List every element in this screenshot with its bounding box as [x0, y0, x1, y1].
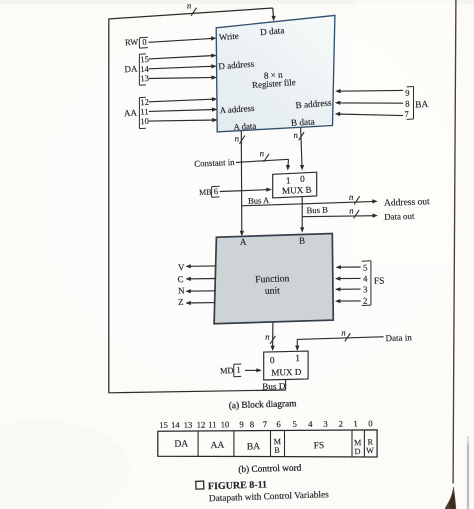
- wire status output N: [185, 289, 215, 293]
- svg-text:9: 9: [405, 88, 410, 98]
- svg-text:14: 14: [171, 420, 181, 430]
- function unit port label A: [240, 237, 247, 247]
- field label AA: [210, 440, 224, 451]
- wire FS bit3 to function unit: [335, 287, 361, 291]
- bracket DA bits: [139, 54, 146, 85]
- svg-text:9: 9: [239, 419, 244, 429]
- label N: [178, 285, 185, 295]
- svg-text:B data: B data: [291, 116, 315, 127]
- field label RW (stacked): [366, 438, 374, 456]
- svg-text:0: 0: [270, 356, 275, 366]
- bus width slash n on Bus B: [349, 205, 359, 218]
- control word bit number 8: [250, 419, 255, 429]
- control word bit number 0: [368, 418, 373, 428]
- svg-text:0: 0: [142, 37, 147, 47]
- control word bit number 12: [197, 420, 206, 430]
- wire Bus A to Address out: [242, 199, 378, 206]
- control word bit number 9: [239, 419, 244, 429]
- bit number 6 (MB): [213, 186, 219, 196]
- label Constant in: [194, 157, 235, 169]
- register file label B address: [295, 97, 332, 110]
- figure caption Datapath with Control Variables: [209, 490, 330, 504]
- wire Function unit output to MUX D input 0: [271, 322, 275, 351]
- MUX B name label: [282, 185, 312, 196]
- label Data in: [385, 332, 412, 343]
- svg-text:C: C: [177, 274, 183, 284]
- svg-text:B: B: [299, 235, 305, 245]
- label MB: [199, 188, 212, 198]
- label MD: [220, 366, 234, 375]
- svg-text:11: 11: [208, 419, 217, 429]
- svg-text:0: 0: [300, 175, 305, 185]
- bit number 5: [363, 262, 368, 272]
- wire status output C: [185, 277, 215, 281]
- svg-text:13: 13: [183, 420, 192, 430]
- control word bit number 5: [292, 419, 297, 429]
- bracket BA bits: [407, 87, 414, 120]
- field label MD (stacked): [354, 438, 362, 456]
- svg-text:(b) Control word: (b) Control word: [238, 463, 302, 476]
- bracket around RW bit 0: [139, 37, 148, 48]
- wire feedback Bus D to D data (left vertical + top horizontal): [108, 8, 275, 393]
- bit number 1 (MD): [236, 365, 241, 375]
- register file label B data: [291, 116, 315, 127]
- field divider MD|RW: [363, 430, 365, 457]
- svg-text:MUX B: MUX B: [282, 185, 312, 196]
- field divider AA|BA: [233, 431, 235, 457]
- bit number 15: [140, 54, 149, 64]
- bus width slash n on function unit output: [265, 332, 275, 344]
- wire FS bit5 to function unit: [336, 265, 361, 269]
- bit number 2: [363, 296, 368, 306]
- bracket FS bits: [362, 261, 371, 306]
- label DA: [124, 64, 138, 75]
- wire A data to Function unit A input: [240, 131, 244, 236]
- register file label 8 x n: [264, 69, 284, 80]
- register file label Write: [219, 31, 240, 43]
- label C: [177, 274, 183, 284]
- bit number 7: [404, 109, 410, 119]
- svg-text:8: 8: [250, 419, 255, 429]
- wire status output V: [185, 264, 215, 268]
- bit number 0 (RW): [142, 37, 147, 47]
- MUX D port label 1: [295, 354, 300, 364]
- page edge line: [453, 0, 456, 484]
- svg-text:B: B: [274, 446, 280, 455]
- wire bit11 to A address: [149, 107, 218, 111]
- svg-text:Function: Function: [255, 273, 290, 285]
- svg-text:10: 10: [140, 116, 149, 126]
- wire B data to MUX B input 0: [300, 128, 304, 171]
- wire RW bit 0 to Write input: [149, 36, 217, 42]
- control word bit number 15: [159, 420, 168, 430]
- wire bit10 to A address: [149, 118, 218, 122]
- svg-text:MUX D: MUX D: [271, 367, 302, 378]
- caption (a) Block diagram: [229, 398, 298, 411]
- control word bit number 1: [353, 418, 358, 428]
- register file label Register file: [252, 77, 296, 90]
- svg-text:FS: FS: [374, 277, 385, 287]
- wire FS bit4 to function unit: [335, 277, 361, 281]
- label Z: [178, 297, 184, 307]
- bit number 13: [140, 73, 149, 83]
- svg-text:2: 2: [339, 418, 344, 428]
- svg-text:Write: Write: [219, 31, 240, 43]
- bracket around MD bit 1: [234, 364, 242, 377]
- wire bit13 to D address: [149, 75, 217, 79]
- control word bit number 3: [323, 419, 328, 429]
- svg-text:5: 5: [292, 419, 297, 429]
- bit number 14: [140, 64, 150, 74]
- bit number 12: [140, 97, 149, 107]
- multiplexer MUX D: [264, 351, 308, 380]
- svg-text:10: 10: [220, 419, 229, 429]
- svg-text:FIGURE 8-11: FIGURE 8-11: [208, 479, 267, 492]
- wire bit9 to B address: [335, 89, 403, 93]
- bit number 11: [140, 106, 149, 116]
- register file label A address: [219, 103, 255, 115]
- control word bit number 4: [308, 419, 313, 429]
- field divider FS|MD: [351, 430, 353, 457]
- page gutter shading: [467, 436, 469, 509]
- svg-text:1: 1: [295, 354, 300, 364]
- wire bit8 to B address: [335, 101, 403, 105]
- control word bit number 2: [339, 418, 344, 428]
- svg-text:DA: DA: [174, 438, 188, 449]
- bus width slash n on Bus A: [349, 192, 360, 205]
- svg-text:D data: D data: [260, 25, 285, 37]
- bus width slash n on feedback wire: [186, 0, 196, 16]
- bracket AA bits: [139, 97, 146, 128]
- figure caption bullet square: [196, 481, 204, 489]
- wire Bus B to Data out: [302, 214, 378, 218]
- label Bus B: [306, 205, 328, 216]
- label Bus D: [262, 381, 286, 392]
- svg-text:Data out: Data out: [384, 211, 415, 222]
- label Address out: [384, 197, 430, 209]
- svg-text:Bus A: Bus A: [248, 195, 270, 206]
- svg-text:Data in: Data in: [385, 332, 412, 343]
- svg-text:DA: DA: [124, 64, 138, 75]
- wire Data in to MUX D input 1: [295, 337, 383, 351]
- register file label D data: [260, 25, 285, 37]
- svg-text:MB: MB: [199, 188, 212, 198]
- control word bit number 11: [208, 419, 217, 429]
- svg-text:Bus B: Bus B: [306, 205, 328, 216]
- MUX D name label: [271, 367, 302, 378]
- bit number 10: [140, 116, 149, 126]
- svg-text:FS: FS: [314, 441, 325, 451]
- field label BA: [247, 441, 261, 452]
- function unit U2: [214, 234, 333, 324]
- wire MD to MUX D select: [245, 368, 262, 372]
- function unit name label: [255, 273, 290, 297]
- control word bit number 14: [171, 420, 181, 430]
- svg-text:BA: BA: [247, 441, 261, 452]
- caption (b) Control word: [238, 463, 302, 476]
- svg-text:A data: A data: [233, 121, 256, 132]
- page curl dark blob: [445, 487, 456, 509]
- svg-text:12: 12: [197, 420, 206, 430]
- svg-text:Z: Z: [178, 297, 184, 307]
- svg-text:unit: unit: [265, 285, 281, 297]
- wire bit12 to A address: [149, 97, 217, 102]
- wire status output Z: [185, 301, 215, 305]
- svg-text:(a) Block diagram: (a) Block diagram: [229, 398, 298, 411]
- field label FS: [314, 441, 325, 451]
- control word bit number 13: [183, 420, 192, 430]
- bit number 4: [363, 273, 368, 283]
- wire bit15 to D address: [149, 54, 217, 59]
- control word bit number 6: [276, 419, 281, 429]
- label Data out: [384, 211, 415, 222]
- field divider DA|AA: [197, 431, 199, 456]
- wire MUX D output Bus D: [108, 380, 285, 393]
- field label MB (stacked): [274, 437, 282, 455]
- bus width slash n on Constant in: [259, 148, 269, 162]
- wire MUX B output to Function unit B input: [300, 197, 304, 232]
- svg-text:8: 8: [405, 98, 410, 108]
- register file U1 (8 x n): [216, 15, 335, 131]
- svg-text:Address out: Address out: [384, 197, 430, 209]
- multiplexer MUX B: [273, 172, 317, 198]
- bus width slash n on A data: [234, 133, 245, 143]
- svg-text:1: 1: [353, 418, 358, 428]
- bus width slash n on B data: [293, 130, 304, 141]
- label Bus A: [248, 195, 270, 206]
- field label DA: [174, 438, 188, 449]
- register file label A data: [233, 121, 256, 132]
- svg-text:AA: AA: [210, 440, 224, 451]
- svg-text:BA: BA: [415, 100, 429, 111]
- svg-text:0: 0: [368, 418, 373, 428]
- wire FS bit2 to function unit: [335, 299, 361, 303]
- label V: [178, 262, 185, 272]
- svg-text:15: 15: [159, 420, 168, 430]
- svg-text:Constant in: Constant in: [194, 157, 235, 169]
- bus width slash n on Data in: [341, 327, 350, 341]
- svg-text:1: 1: [236, 365, 241, 375]
- svg-text:W: W: [366, 446, 374, 455]
- bit number 8: [405, 98, 410, 108]
- svg-text:MD: MD: [220, 366, 234, 375]
- svg-text:D: D: [354, 447, 360, 456]
- MUX B port label 1: [286, 176, 291, 186]
- control word bit number 10: [220, 419, 229, 429]
- figure caption FIGURE 8-11: [208, 479, 267, 492]
- control word register outline: [158, 430, 377, 457]
- register file label D address: [218, 59, 255, 72]
- wire MB to MUX B select: [220, 188, 272, 192]
- svg-text:2: 2: [363, 296, 368, 306]
- MUX B port label 0: [300, 175, 305, 185]
- svg-text:Bus D: Bus D: [262, 381, 286, 392]
- control word bit number 7: [263, 419, 268, 429]
- svg-text:A: A: [240, 237, 247, 247]
- svg-text:13: 13: [140, 73, 149, 83]
- bracket around MB bit 6: [212, 186, 220, 197]
- wire Constant in to MUX B input 1: [236, 159, 290, 170]
- wire bit14 to D address: [149, 64, 217, 69]
- svg-text:3: 3: [323, 419, 328, 429]
- function unit port label B: [299, 235, 305, 245]
- svg-text:RW: RW: [125, 37, 139, 48]
- field divider BA|MB: [270, 431, 272, 457]
- label FS: [374, 277, 385, 287]
- label RW: [125, 37, 139, 48]
- label BA: [415, 100, 429, 111]
- bit number 3: [363, 284, 368, 294]
- wire bit7 to B address: [335, 112, 403, 116]
- field divider MB|FS: [284, 430, 286, 456]
- svg-text:AA: AA: [124, 108, 138, 119]
- label AA: [124, 108, 138, 119]
- svg-text:N: N: [178, 285, 185, 295]
- MUX D port label 0: [270, 356, 275, 366]
- svg-text:V: V: [178, 262, 185, 272]
- bit number 9: [405, 88, 410, 98]
